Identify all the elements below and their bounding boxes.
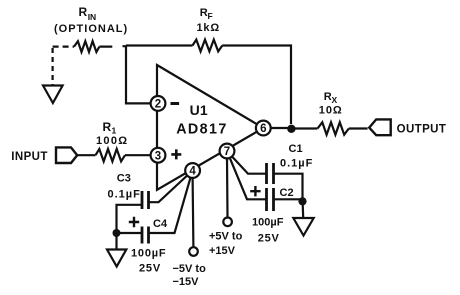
wire pin 4 to C3	[149, 176, 188, 203]
wire C4 left lead	[117, 232, 143, 234]
capacitor C4	[142, 227, 149, 244]
pin 7	[220, 144, 235, 159]
svg-text:IN: IN	[88, 12, 97, 22]
ground (C3/C4)	[107, 233, 126, 267]
svg-text:F: F	[208, 11, 213, 21]
plus sign C4	[129, 217, 139, 227]
minus sign (inverting input)	[171, 102, 180, 105]
wire pin 4 to -supply terminal	[192, 178, 195, 247]
svg-text:10Ω: 10Ω	[319, 105, 343, 117]
label RIN	[79, 5, 97, 22]
wire RX to output connector	[349, 127, 368, 129]
wire dashed RIN left lead	[53, 45, 74, 47]
svg-text:6: 6	[260, 123, 266, 135]
wire C3 to left vertical	[117, 205, 143, 233]
terminal +5V to +15V	[223, 218, 232, 227]
svg-text:OUTPUT: OUTPUT	[397, 123, 447, 135]
wire pin 7 to C2	[230, 158, 267, 199]
wire input to R1	[77, 154, 95, 156]
svg-text:2: 2	[155, 99, 161, 111]
ground (C1/C2)	[293, 201, 313, 236]
svg-text:7: 7	[224, 146, 230, 158]
svg-text:25V: 25V	[139, 263, 161, 275]
label RF	[200, 7, 213, 21]
svg-text:4: 4	[189, 166, 196, 178]
wire R1 to pin 3	[125, 154, 151, 156]
ground (RIN optional, dashed stem)	[43, 48, 63, 103]
svg-text:100µF: 100µF	[131, 248, 166, 260]
resistor RIN	[74, 41, 99, 52]
svg-text:C4: C4	[153, 218, 168, 230]
label R1	[103, 120, 117, 136]
svg-text:C3: C3	[117, 173, 131, 185]
svg-text:25V: 25V	[258, 233, 280, 245]
pin 3	[151, 148, 166, 163]
svg-text:U1: U1	[190, 102, 208, 118]
capacitor C2	[267, 188, 274, 211]
wire junction to RX	[291, 127, 318, 129]
svg-text:0.1µF: 0.1µF	[108, 189, 141, 201]
svg-text:0.1µF: 0.1µF	[280, 158, 313, 170]
wire feedback top right	[222, 46, 291, 125]
svg-text:C1: C1	[289, 143, 303, 155]
capacitor C1	[267, 163, 274, 184]
junction node (output)	[287, 125, 295, 133]
input connector	[56, 147, 77, 163]
junction node (C3/C4 ground)	[113, 229, 121, 237]
svg-text:100µF: 100µF	[252, 217, 284, 229]
svg-text:INPUT: INPUT	[11, 151, 48, 163]
wire feedback top	[126, 44, 193, 46]
wire pin 7 to +supply terminal	[226, 158, 229, 217]
wire C1 to right vertical	[274, 174, 303, 198]
wire C2 to junction	[274, 198, 303, 200]
svg-text:−15V: −15V	[173, 276, 200, 288]
wire pin 7 to C1	[232, 157, 267, 174]
plus sign C2	[250, 186, 260, 196]
junction node (C1/C2 ground)	[298, 197, 306, 205]
resistor R1	[96, 149, 126, 161]
pin 4	[185, 163, 200, 178]
op-amp U1 triangle	[157, 65, 263, 190]
wire pin 6 to junction	[271, 127, 292, 129]
resistor RF	[193, 40, 223, 52]
wire feedback left corner to pin 2	[126, 46, 151, 104]
svg-text:1: 1	[112, 126, 117, 136]
terminal -5V to -15V	[189, 247, 198, 256]
output connector	[369, 119, 391, 135]
capacitor C3	[142, 191, 149, 209]
svg-text:R: R	[103, 120, 112, 134]
wire pin 4 to C4	[149, 178, 191, 233]
svg-text:100Ω: 100Ω	[96, 135, 128, 147]
label RX	[324, 91, 338, 105]
svg-text:+5V to: +5V to	[209, 231, 243, 243]
svg-text:C2: C2	[280, 187, 294, 199]
wire RIN right lead (partly dashed)	[99, 45, 126, 48]
svg-text:−5V to: −5V to	[173, 263, 207, 275]
svg-text:R: R	[79, 5, 88, 19]
svg-text:3: 3	[155, 150, 161, 162]
svg-text:+15V: +15V	[209, 245, 236, 257]
svg-text:1kΩ: 1kΩ	[197, 22, 220, 34]
svg-text:X: X	[332, 95, 338, 105]
pin 6	[256, 121, 271, 136]
pin 2	[151, 96, 166, 111]
svg-text:(OPTIONAL): (OPTIONAL)	[54, 23, 128, 35]
resistor RX	[318, 122, 349, 134]
svg-text:AD817: AD817	[176, 122, 228, 138]
plus sign (non-inverting input)	[171, 149, 181, 159]
